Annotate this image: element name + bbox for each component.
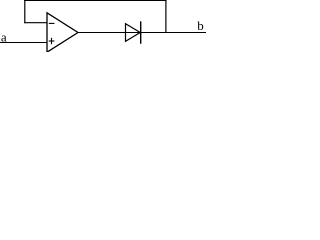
svg-text:a: a <box>1 29 7 44</box>
svg-text:b: b <box>197 18 204 33</box>
